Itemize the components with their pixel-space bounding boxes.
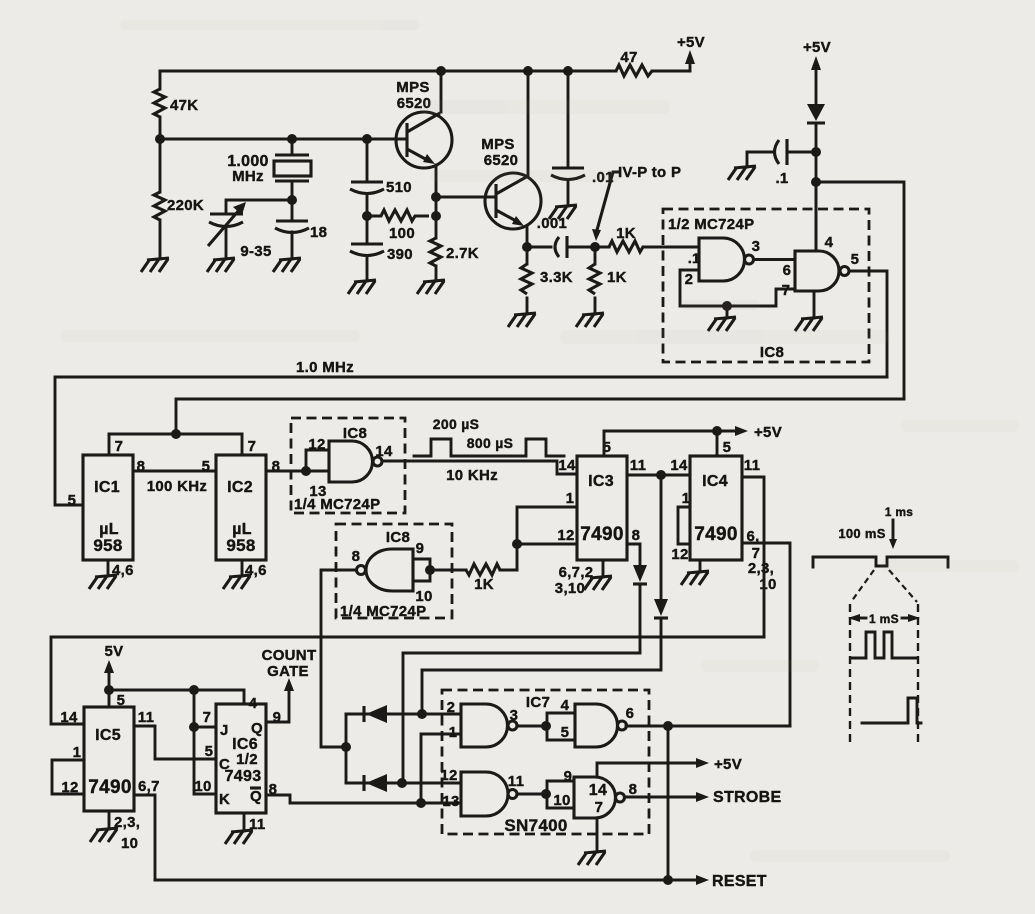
wire diode node down [815,152,818,251]
capacitor trimmer 9-35 [208,202,272,260]
resistor 47K [154,71,198,139]
svg-text:14: 14 [60,709,78,726]
wire IC8d output down left [321,570,356,747]
capacitor .01 [551,71,614,206]
svg-text:10: 10 [121,835,138,852]
wire gate IC8a out to IC8b in [754,258,795,261]
node .01 rail [563,66,573,76]
svg-text:12: 12 [440,767,457,784]
power +5V arrow right [803,39,831,104]
svg-text:1: 1 [682,490,691,507]
resistor 1K vertical [589,247,627,314]
svg-text:+5V: +5V [677,34,705,51]
wire 5V to IC6 pin4 [109,690,244,704]
power 5V arrow IC5 [104,643,123,707]
svg-text:GATE: GATE [267,663,309,680]
node pin7 tie [171,429,181,439]
svg-text:6,7,2: 6,7,2 [559,564,594,581]
wire IC4 pins 1 12 loop [678,507,690,544]
node Q2 collector rail [523,66,533,76]
svg-text:1/4 MC724P: 1/4 MC724P [294,496,380,513]
wire IC8b output right and down [849,271,887,377]
svg-text:1/4 MC724P: 1/4 MC724P [340,603,426,620]
svg-text:9: 9 [564,768,573,785]
wire IC5 pins 1 12 loop [52,760,84,794]
resistor 3.3K [521,247,573,314]
gate IC8b NAND [782,234,860,299]
resistor 2.7K [430,216,479,281]
ground IC4 [681,571,709,585]
svg-text:13: 13 [442,793,459,810]
diode D4 [346,774,461,792]
svg-text:1K: 1K [616,225,636,242]
wire IC7d pin14 to +5V arrow [597,756,742,777]
svg-text:5: 5 [561,724,570,741]
wire dashed magnifier sides [850,604,918,746]
svg-text:7490: 7490 [694,524,737,545]
svg-text:3: 3 [510,707,519,724]
svg-text:4: 4 [825,234,834,251]
svg-text:4: 4 [561,697,570,714]
node reset tie [663,875,673,885]
power +5V arrow top [677,34,705,71]
wire clock feed long run [176,399,904,434]
wire RESET bus arrow [155,873,767,890]
svg-text:5: 5 [117,692,126,709]
svg-text:47K: 47K [170,97,198,114]
svg-text:5: 5 [68,492,77,509]
svg-text:5: 5 [205,743,214,760]
svg-text:7: 7 [782,282,791,299]
node 1K tap [590,242,600,252]
ground 1K vertical [576,313,604,327]
ground cap .1 [728,166,756,180]
wire IC8d input bracket [413,559,430,581]
node J branch [189,722,199,732]
svg-text:7: 7 [203,709,212,726]
svg-text:5: 5 [723,439,732,456]
svg-text:5: 5 [851,251,860,268]
crystal 1.000 MHz [227,139,311,200]
wire IC3 pin11 to IC4 pin14 [627,474,690,477]
IC3 7490 [555,439,646,597]
node reset branch [663,721,673,731]
node 510 top [362,134,372,144]
svg-text:1K: 1K [607,269,627,286]
svg-text:IC2: IC2 [227,479,253,496]
resistor 47 [616,49,652,76]
node ground tie [722,301,732,311]
ground cap 390 [348,280,376,294]
wire COUNT GATE output arrow [262,647,317,722]
svg-text:390: 390 [387,246,413,263]
wire diode bridge left side [345,714,348,783]
wire IC4 pin67 out down [742,543,790,726]
svg-text:200 µS: 200 µS [433,416,479,432]
svg-text:.1: .1 [775,170,788,187]
svg-text:Q: Q [251,720,263,737]
node Qbar tie [416,798,426,808]
svg-text:IC3: IC3 [588,473,614,490]
svg-text:2,3,: 2,3, [748,560,774,577]
ground 220K [141,258,169,272]
svg-text:958: 958 [93,536,122,555]
svg-text:3: 3 [752,238,761,255]
svg-text:800 µS: 800 µS [467,435,513,451]
IC6 7493 [194,695,281,833]
waveform 100 mS gate [813,526,948,567]
waveform expanded pulses [852,632,917,658]
svg-text:3.3K: 3.3K [540,269,573,286]
label -IV-P to P with leader arrow [592,164,681,241]
wire IC7c out to bracket [517,793,547,796]
IC2 uL958 [202,434,281,579]
wire IC3 pin8 out [627,544,640,565]
svg-text:1 mS: 1 mS [869,612,899,626]
ground cap 18 [273,258,301,272]
svg-text:220K: 220K [167,197,204,214]
svg-text:J: J [220,722,229,739]
wire IC8b pin4 supply [815,182,818,251]
svg-text:6520: 6520 [484,152,519,169]
svg-text:11: 11 [508,773,524,790]
ground gate IC8b [795,317,823,331]
node JK tie [189,685,199,695]
wire dashed magnifier flare [851,570,917,602]
wire crystal to trimmer [226,200,292,214]
ground IC2 [223,575,251,589]
node 5V tie [104,685,114,695]
svg-text:1 ms: 1 ms [885,505,914,519]
gate IC8c NAND [308,436,393,500]
IC8 half package dashed box [663,209,869,362]
svg-text:14: 14 [375,443,393,460]
gate IC7d NAND [574,777,637,818]
svg-text:1/2 MC724P: 1/2 MC724P [668,216,754,233]
resistor 1K to IC3 [434,564,517,593]
resistor 100 [367,210,429,242]
svg-text:100 mS: 100 mS [838,526,885,541]
resistor 220K [154,139,204,259]
svg-text:10: 10 [553,792,570,809]
label 1 mS span arrows [848,612,920,626]
capacitor 18 [275,200,327,259]
node diode cathode [811,147,821,157]
wire gate IC8a pin2 loop to ground [680,270,795,306]
diode D3 [346,705,461,723]
svg-text:Q: Q [250,788,262,805]
svg-text:8: 8 [629,781,638,798]
wire +5V line IC3 IC4 [604,424,782,456]
svg-text:1/2: 1/2 [236,751,258,768]
svg-text:47: 47 [620,49,637,66]
svg-text:K: K [219,791,230,808]
svg-text:1: 1 [449,724,458,741]
svg-text:IC1: IC1 [94,479,120,496]
svg-text:3,10: 3,10 [555,580,585,597]
wire IC5 pin11 to IC6 clock [134,726,216,760]
svg-text:IV-P to P: IV-P to P [618,164,681,181]
label 1 ms with arrow [885,505,914,549]
node D3 out [417,709,427,719]
svg-text:+5V: +5V [803,39,831,56]
svg-text:13: 13 [309,483,326,500]
svg-text:1: 1 [73,744,82,761]
svg-text:2: 2 [685,271,694,288]
wire IC1 IC2 pin7 bus [109,433,242,436]
svg-text:2: 2 [447,699,456,716]
svg-text:1.0 MHz: 1.0 MHz [296,359,354,376]
node 510 bottom [362,211,372,221]
wire J branch [194,726,216,729]
ground IC6 [225,830,253,844]
svg-text:11: 11 [744,457,760,474]
IC1 uL958 [68,434,146,579]
svg-text:100: 100 [389,225,415,242]
svg-text:7490: 7490 [88,777,131,798]
svg-text:510: 510 [386,179,412,196]
svg-text:12: 12 [308,436,325,453]
node IC8c input tie [301,466,311,476]
node IC8d input tie [425,565,435,575]
svg-text:IC5: IC5 [95,727,121,744]
node pin12 tie [512,539,522,549]
ground 2.7K [417,280,445,294]
svg-text:10: 10 [415,588,432,605]
svg-text:9-35: 9-35 [240,243,271,260]
gate IC7a NAND [447,699,519,747]
IC7 SN7400 dashed box [442,690,649,835]
svg-text:100 KHz: 100 KHz [147,478,207,495]
svg-text:IC8: IC8 [760,344,784,361]
wire Q2 emitter down [526,226,529,247]
waveform 200us 800us [414,416,564,456]
svg-text:958: 958 [226,536,255,555]
svg-text:14: 14 [670,457,688,474]
svg-text:C: C [219,756,230,773]
wire IC7d ground stub [596,818,599,852]
wire IC7b input bracket [547,697,575,741]
wire IC8c input bracket [306,450,329,471]
wire STROBE output arrow [625,789,781,806]
wire IC7d input bracket [547,768,574,809]
ground trimmer [207,258,235,272]
svg-text:10 KHz: 10 KHz [446,467,498,484]
wire IC7a out to bracket [517,725,547,728]
wire latch pin1 tie [421,734,461,803]
IC4 7490 [670,439,776,593]
svg-text:11: 11 [138,709,154,726]
wire IC6 Qbar out [266,795,461,803]
svg-text:1K: 1K [474,576,494,593]
node diode bridge feed [341,742,351,752]
svg-text:2.7K: 2.7K [446,245,479,262]
node crystal top [287,134,297,144]
node D4 out [397,778,407,788]
resistor 1K series [609,225,699,252]
node 100/2.7K junction [431,211,441,221]
wire IC8c out to IC3 pin14 10 KHz [382,457,577,484]
diode D2 [422,599,668,714]
svg-text:IC7: IC7 [526,694,550,711]
wire Q1 emitter to Q2 base [436,196,496,199]
svg-text:5V: 5V [105,643,124,660]
svg-text:12: 12 [557,527,574,544]
svg-text:7490: 7490 [580,524,623,545]
wire IC8b ground stub [813,291,816,318]
svg-text:8: 8 [632,527,641,544]
capacitor 510 [350,139,412,216]
wire IC2 pin8 out [266,470,329,473]
svg-text:6: 6 [626,705,635,722]
wire top +5V rail [160,70,690,73]
svg-text:8: 8 [352,548,361,565]
ground IC1 [89,575,117,589]
node IC4 pin5 [712,426,722,436]
svg-text:+5V: +5V [754,424,782,441]
wire reset vertical [667,726,670,880]
wire Q1 emitter down [435,165,438,216]
gate IC7b NAND [575,704,634,747]
node Q1 collector rail [436,66,446,76]
svg-text:4: 4 [249,695,258,712]
capacitor 390 [350,216,413,281]
wire ground stub [726,306,729,318]
capacitor .001 [527,215,609,258]
IC5 7490 [60,692,159,852]
svg-text:18: 18 [310,224,327,241]
svg-text:9: 9 [416,540,425,557]
wire tap right and down [816,182,904,399]
wire IC5 pin67 to reset bus [134,795,155,880]
node tap to divider chain [811,177,821,187]
svg-text:14: 14 [589,782,607,799]
ground 3.3K [508,313,536,327]
node IC7d input tie [541,789,551,799]
wire IC3 pin11 node down [660,475,663,599]
svg-text:7: 7 [595,799,604,816]
wire Q2 collector to rail [527,71,530,176]
gate IC8d NAND mirrored [352,540,433,605]
wire IC7b output [626,725,790,728]
svg-text:7: 7 [115,438,124,455]
svg-text:10: 10 [759,576,776,593]
svg-text:MPS: MPS [481,136,514,153]
svg-text:MHz: MHz [232,168,264,185]
svg-text:1: 1 [566,490,575,507]
wire JK feed down [194,690,216,794]
capacitor .1 [747,139,816,187]
svg-text:COUNT: COUNT [262,647,317,664]
wire 1.0 MHz long run [55,359,887,505]
IC8 quarter dashed box lower [336,524,452,620]
ground IC7d [578,851,606,865]
diode CR1 [807,104,825,152]
wire IC4 pin11 out down [742,477,764,637]
node IC7b input tie [541,721,551,731]
svg-text:6: 6 [783,262,792,279]
svg-text:MPS: MPS [396,79,429,96]
svg-text:11: 11 [630,457,646,474]
IC8 quarter dashed box upper [291,418,405,513]
svg-text:IC8: IC8 [386,529,410,546]
svg-text:5: 5 [202,458,211,475]
svg-text:6,7: 6,7 [138,778,160,795]
ground cap .01 [549,205,577,219]
transistor Q1 MPS 6520 [396,79,452,168]
node divider link [656,470,666,480]
waveform strobe pulse [862,698,921,723]
svg-text:12: 12 [671,546,688,563]
wire Q1 collector to rail [440,71,443,112]
wire IC3 pins 1 12 tie [517,507,577,570]
node Q2 emitter junction [522,242,532,252]
svg-text:10: 10 [194,778,211,795]
ground IC3 [584,576,612,590]
gate IC8a NAND [685,238,761,288]
node emitter Q1 junction [431,192,441,202]
gate IC7c NAND [440,767,524,816]
svg-text:.001: .001 [537,215,567,232]
wire IC1 out to IC2 in 100 KHz [133,471,216,495]
node crystal bottom [287,195,297,205]
svg-text:+5V: +5V [714,756,742,773]
diode D1 [403,565,647,783]
wire base rail [160,138,407,141]
svg-text:SN7400: SN7400 [504,816,567,835]
svg-text:14: 14 [558,457,576,474]
svg-text:.1: .1 [688,250,700,266]
transistor Q2 MPS 6520 [481,136,541,229]
ground gate IC8a [708,317,736,331]
svg-text:RESET: RESET [712,873,767,890]
svg-text:7: 7 [248,438,257,455]
ground IC5 [90,828,118,842]
svg-text:IC4: IC4 [702,473,728,490]
svg-text:STROBE: STROBE [713,789,781,806]
wire gate bus long run [51,637,764,724]
node base rail left [155,134,165,144]
